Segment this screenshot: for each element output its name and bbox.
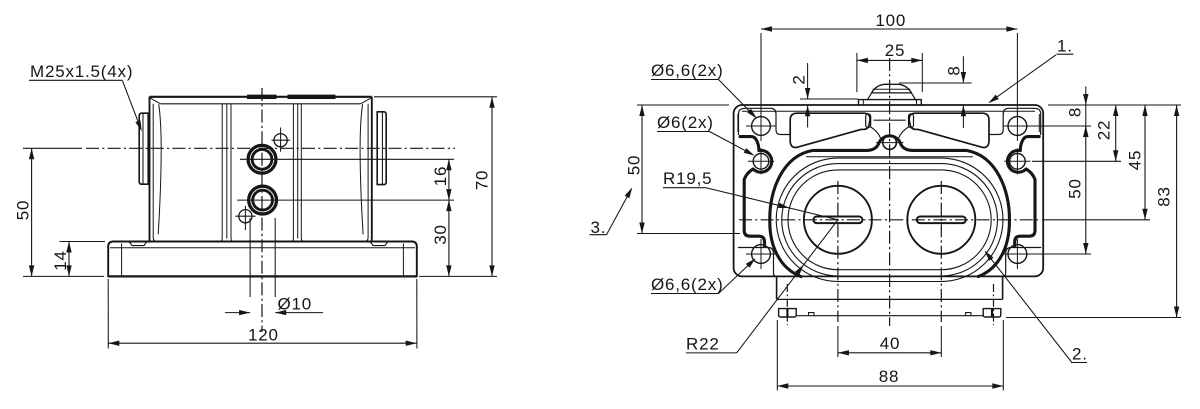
small hole lower left xyxy=(235,206,255,230)
svg-text:30: 30 xyxy=(431,224,450,245)
mounting hole dia 6.6 #3 xyxy=(746,239,776,269)
label 2. xyxy=(985,251,1088,364)
foot left xyxy=(779,309,797,317)
label R22 xyxy=(686,220,838,354)
dimension 25 xyxy=(857,41,922,92)
svg-text:3.: 3. xyxy=(591,218,607,237)
svg-text:2: 2 xyxy=(790,74,809,84)
svg-text:22: 22 xyxy=(1095,120,1114,141)
extension line bottom right xyxy=(1006,317,1181,319)
top strip xyxy=(859,100,922,105)
hump funnel lines xyxy=(871,120,909,137)
dimension dia 10 xyxy=(225,295,323,316)
dimension 50 left side xyxy=(625,105,741,234)
foot centerline left xyxy=(786,284,788,325)
corner boss bottom-right xyxy=(1003,248,1041,277)
hole lines for dia 10 xyxy=(250,218,275,297)
svg-text:1.: 1. xyxy=(1057,37,1073,56)
dimension 50 right xyxy=(1066,126,1089,254)
svg-text:50: 50 xyxy=(14,200,33,221)
dimension 22 right xyxy=(1095,105,1119,161)
label R19,5 xyxy=(663,169,838,220)
dimension 14 xyxy=(51,242,105,277)
svg-text:120: 120 xyxy=(248,326,279,345)
left view right wall xyxy=(360,97,372,242)
svg-text:8: 8 xyxy=(945,65,964,75)
svg-text:40: 40 xyxy=(880,334,901,353)
dimension 50 left xyxy=(14,148,105,276)
dimension 8 top xyxy=(899,56,972,128)
plate side second edges xyxy=(738,114,1039,132)
label dia 6.6 top xyxy=(651,61,757,119)
right view bore row centerline xyxy=(739,219,1040,221)
svg-text:50: 50 xyxy=(1066,178,1085,199)
bore 2 vertical centerline xyxy=(940,181,942,322)
left view horizontal centerline xyxy=(86,147,455,149)
dimension 100 xyxy=(761,11,1017,116)
svg-text:100: 100 xyxy=(875,11,906,30)
clamp pad left xyxy=(790,113,870,147)
clamp pad right xyxy=(909,113,989,147)
svg-text:8: 8 xyxy=(1066,107,1085,117)
corner boss bottom-left xyxy=(739,248,777,277)
svg-text:M25x1.5(4x): M25x1.5(4x) xyxy=(30,62,133,81)
extension line dia6 right xyxy=(1032,160,1121,162)
svg-text:45: 45 xyxy=(1126,150,1145,171)
mounting hole dia 6.6 #2 xyxy=(1002,111,1032,141)
svg-text:2.: 2. xyxy=(1072,345,1088,364)
corner boss top-left xyxy=(739,108,791,134)
foot centerline right xyxy=(993,284,995,325)
dimension 16 right xyxy=(431,159,452,200)
corner boss top-right xyxy=(989,108,1040,134)
mounting hole dia 6.6 #1 xyxy=(746,111,776,141)
port upper xyxy=(248,145,276,173)
right view vertical centerline xyxy=(889,58,891,326)
svg-text:R22: R22 xyxy=(686,335,720,354)
svg-text:Ø6,6(2x): Ø6,6(2x) xyxy=(651,61,724,80)
slot bore 2 xyxy=(917,217,966,224)
svg-text:R19,5: R19,5 xyxy=(663,169,712,188)
svg-text:50: 50 xyxy=(625,155,644,176)
central hole xyxy=(876,136,904,150)
svg-text:16: 16 xyxy=(431,166,450,187)
dimension 88 xyxy=(777,320,1003,391)
svg-text:88: 88 xyxy=(879,367,900,386)
left view vertical centerline xyxy=(261,88,263,332)
dimension 8 right xyxy=(1066,87,1089,138)
bottom edge xyxy=(796,313,983,316)
extension line bore row right xyxy=(1042,219,1150,221)
left view center block walls xyxy=(153,104,368,242)
extension line plate top right xyxy=(1048,104,1181,106)
bore 1 circle xyxy=(804,186,872,254)
hole dia 6 #2 xyxy=(1004,148,1030,174)
svg-text:14: 14 xyxy=(51,250,70,271)
hump notch left xyxy=(866,114,871,128)
left view body top edge with slots xyxy=(150,97,372,104)
racetrack contour R19.5 xyxy=(788,170,991,270)
thick contour hook right xyxy=(1007,137,1039,247)
dome cap xyxy=(867,84,915,100)
bore 2 circle xyxy=(907,186,975,254)
top face chamfer line xyxy=(806,156,973,158)
hump notch right xyxy=(909,114,914,128)
flange plate outline xyxy=(734,105,1044,276)
thick contour hook left xyxy=(740,137,772,247)
dimension 45 right xyxy=(1126,105,1148,220)
port center lines xyxy=(237,159,454,200)
svg-text:25: 25 xyxy=(885,41,906,60)
label 1. xyxy=(988,37,1073,104)
racetrack contour outer xyxy=(776,158,1003,281)
label dia 6 xyxy=(657,113,755,156)
flange top notch left xyxy=(129,242,147,246)
bore 1 vertical centerline xyxy=(837,181,839,322)
dimension 70 right xyxy=(374,97,497,277)
slot bore 1 xyxy=(813,217,862,224)
thick body outline xyxy=(770,136,1010,277)
svg-text:Ø10: Ø10 xyxy=(278,295,313,314)
dimension 30 right xyxy=(431,200,452,276)
label M25x1.5(4x) xyxy=(29,62,142,131)
boss M25 right xyxy=(377,112,386,185)
boss M25 left xyxy=(139,113,148,184)
extension line hole row bottom right xyxy=(1032,253,1091,255)
racetrack contour R22 xyxy=(782,164,998,276)
mounting hole dia 6.6 #4 xyxy=(1002,239,1032,269)
foot right xyxy=(983,309,1001,317)
label dia 6.6 bottom xyxy=(651,258,756,294)
flange top notch right xyxy=(370,242,388,246)
left view left wall xyxy=(150,97,162,242)
hole dia 6 #1 xyxy=(748,148,774,174)
plate top second edge xyxy=(742,110,1035,112)
dimension 40 xyxy=(838,326,941,357)
port lower xyxy=(249,186,277,214)
dimension 2 xyxy=(790,63,858,128)
svg-text:Ø6(2x): Ø6(2x) xyxy=(657,113,714,132)
svg-text:70: 70 xyxy=(473,170,492,191)
label 3. xyxy=(590,187,633,237)
extension line hole row top right xyxy=(1032,125,1091,127)
svg-text:Ø6,6(2x): Ø6,6(2x) xyxy=(651,275,724,294)
left view flange base xyxy=(108,242,417,277)
lower section sides xyxy=(777,276,1003,299)
svg-text:83: 83 xyxy=(1155,186,1174,207)
dimension 83 right xyxy=(1155,105,1180,318)
small hole upper right xyxy=(272,128,290,152)
dimension 120 xyxy=(108,279,417,349)
